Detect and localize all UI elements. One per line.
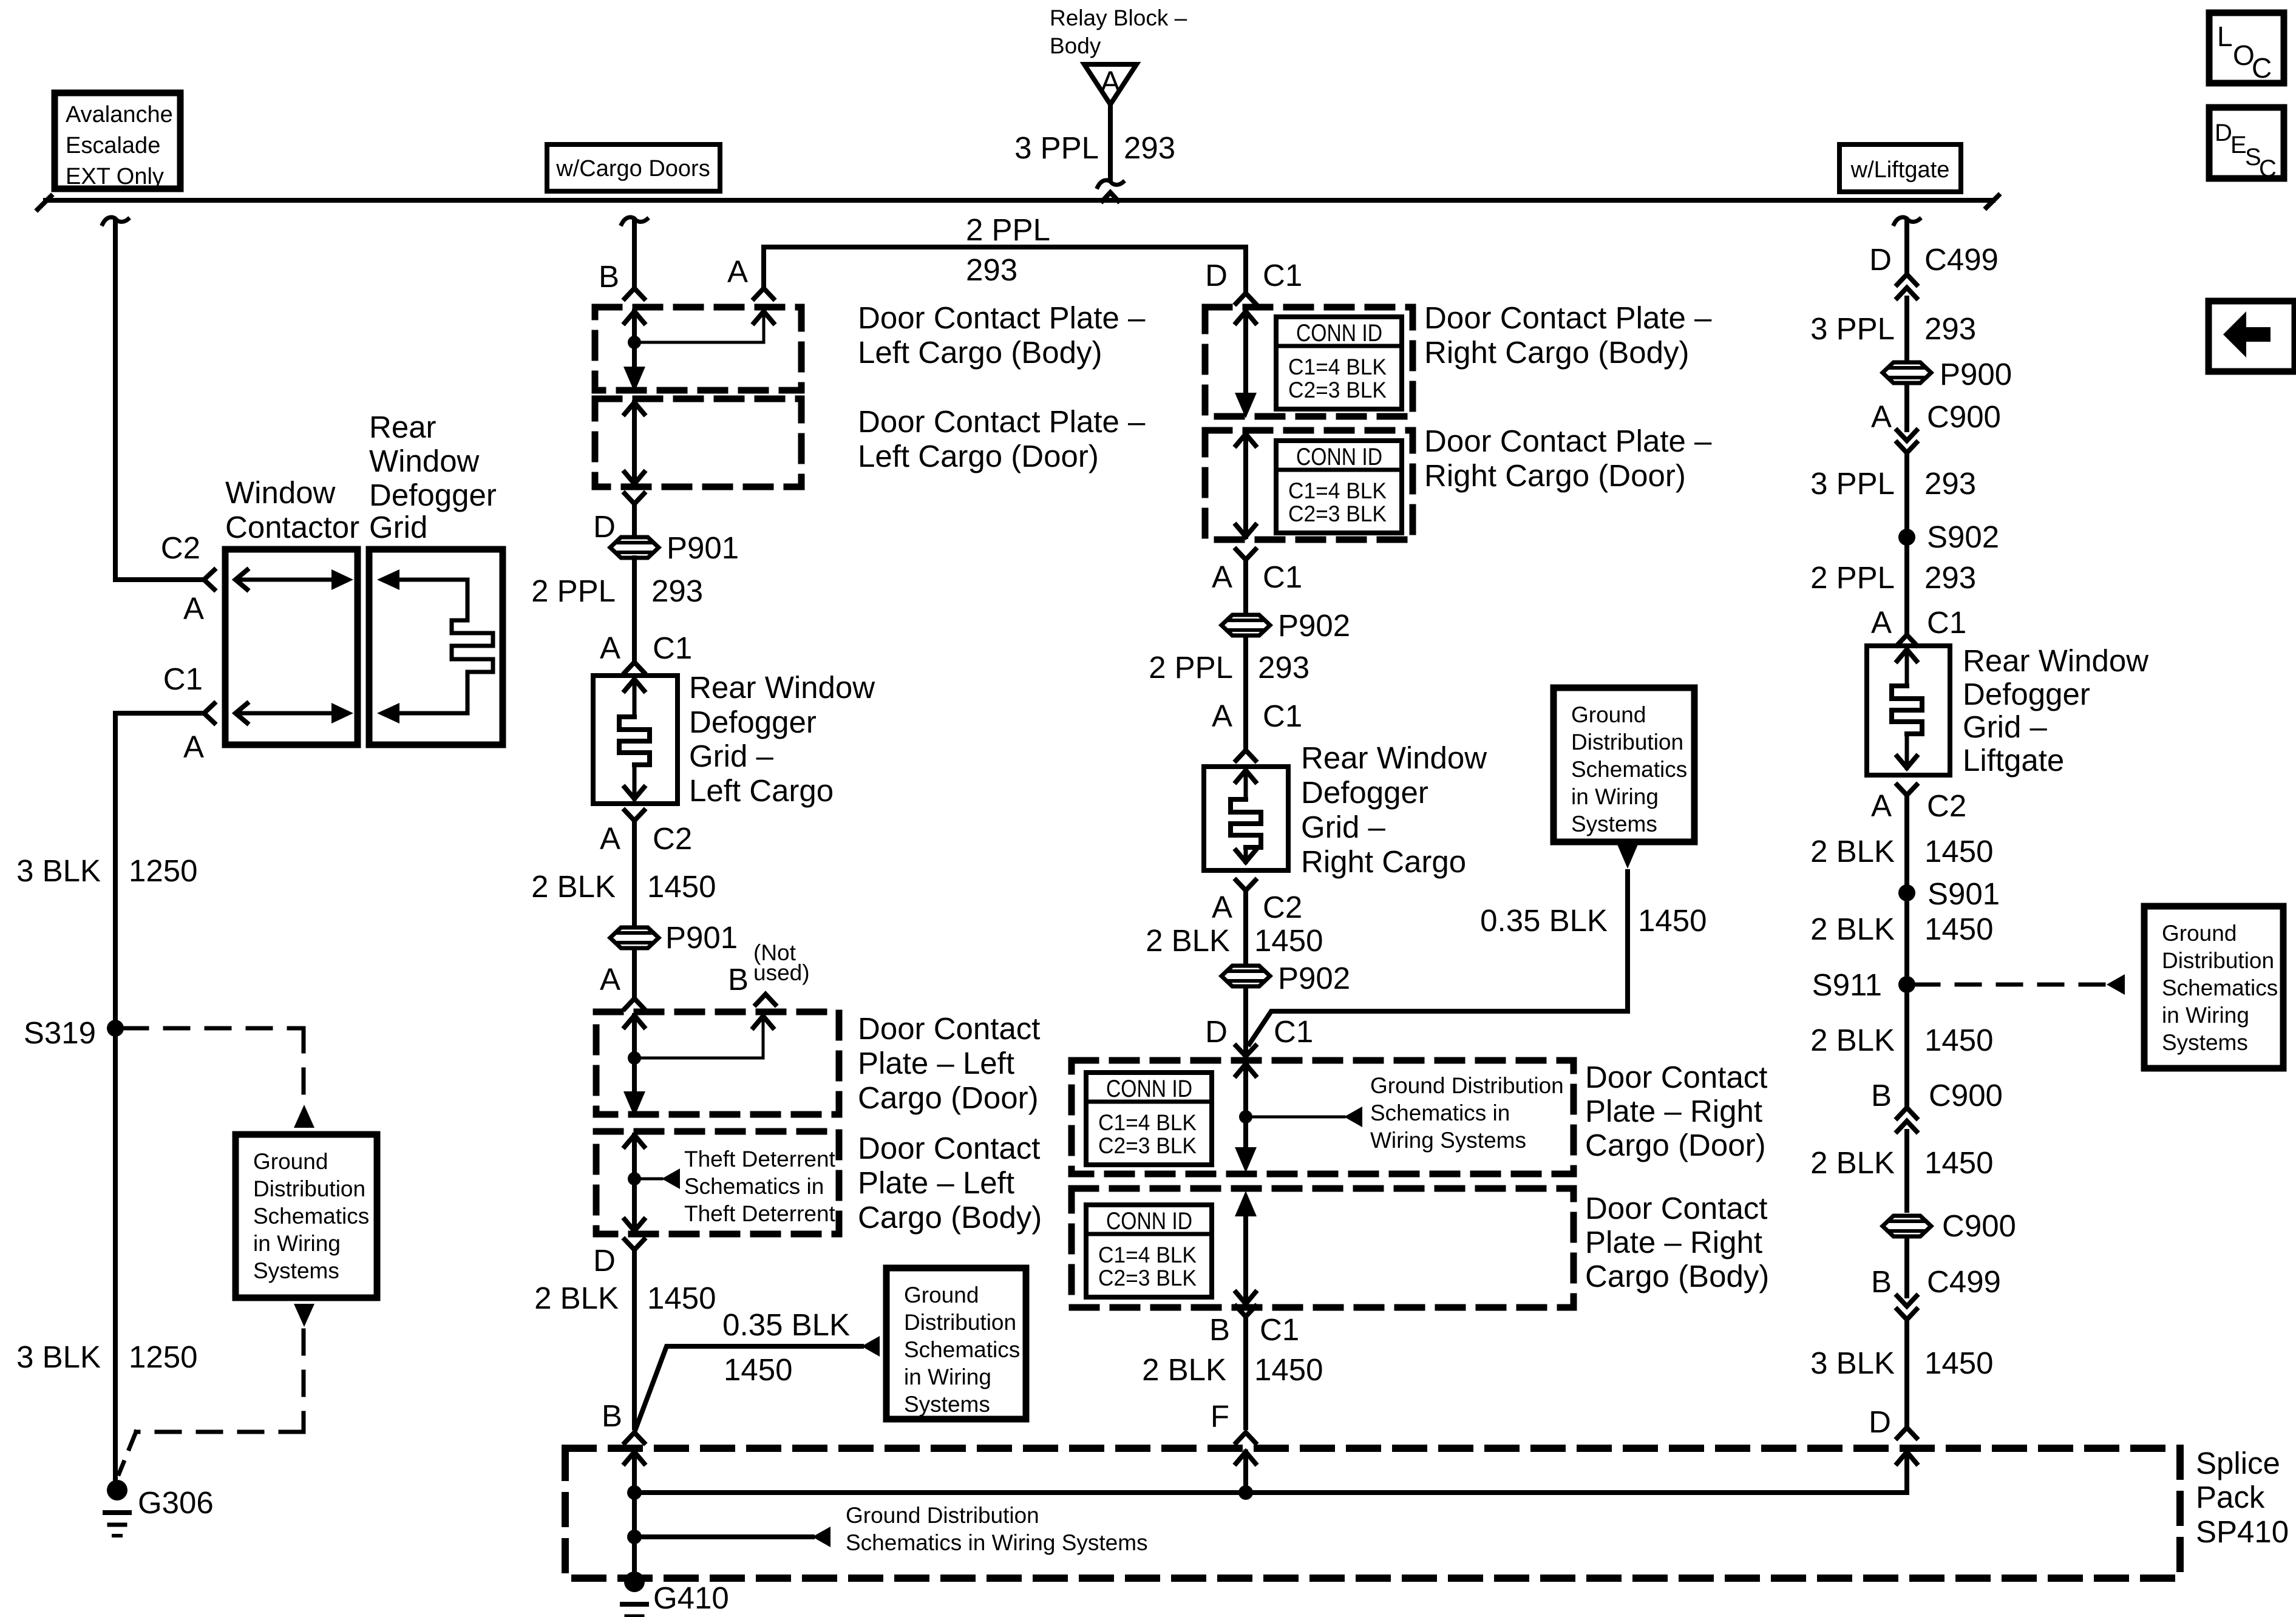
- svg-text:293: 293: [651, 574, 703, 608]
- label box w/Cargo Doors: [547, 144, 720, 191]
- svg-text:C1: C1: [1274, 1014, 1313, 1049]
- svg-text:G306: G306: [138, 1485, 214, 1520]
- svg-text:w/Cargo Doors: w/Cargo Doors: [555, 156, 710, 181]
- wire from pin D to P901: [632, 504, 637, 537]
- wire from defogger grid liftgate to S901: [1904, 795, 1909, 884]
- svg-text:D: D: [2215, 120, 2232, 146]
- wire from relay triangle to bus: [1108, 104, 1113, 180]
- svg-text:Avalanche: Avalanche: [66, 102, 173, 127]
- grid element inside defogger grid right cargo: [1236, 770, 1255, 782]
- svg-text:Defogger: Defogger: [689, 705, 817, 739]
- dashed reference wire from ground distribution box down to G306 wire: [294, 1304, 314, 1327]
- dashed box Door Contact Plate - Right Cargo (Body) (ground side): [1072, 1188, 1574, 1307]
- svg-text:Schematics: Schematics: [904, 1337, 1020, 1362]
- splice S911: [1898, 976, 1915, 993]
- svg-text:C2=3 BLK: C2=3 BLK: [1288, 378, 1387, 402]
- CONN ID table right cargo body plate (ground side): [1086, 1205, 1212, 1297]
- svg-text:C1: C1: [1260, 1312, 1299, 1347]
- svg-text:1450: 1450: [1254, 1352, 1323, 1387]
- svg-text:2 PPL: 2 PPL: [1810, 560, 1895, 595]
- svg-text:A: A: [1871, 788, 1892, 823]
- svg-text:in Wiring: in Wiring: [2162, 1003, 2249, 1028]
- wire from defogger grid left cargo to P901: [632, 821, 637, 926]
- pin B C499 double chevron: [1904, 1237, 1909, 1296]
- grid element inside Rear Window Defogger Grid: [377, 569, 399, 590]
- svg-text:D: D: [1205, 1014, 1228, 1049]
- svg-text:Theft Deterrent: Theft Deterrent: [684, 1147, 836, 1171]
- svg-text:A: A: [727, 254, 748, 289]
- svg-text:1450: 1450: [1924, 1023, 1993, 1057]
- main bus wire: [46, 198, 1993, 203]
- svg-text:0.35 BLK: 0.35 BLK: [722, 1307, 850, 1342]
- pin C1 connector chevron (Window Contactor): [204, 703, 214, 723]
- pass-through connector P900: [1883, 362, 1931, 383]
- svg-text:Defogger: Defogger: [369, 478, 497, 512]
- contact wire inside left cargo door plate (ground side): [625, 1015, 644, 1027]
- svg-text:Door Contact: Door Contact: [858, 1131, 1040, 1165]
- svg-text:Window: Window: [369, 444, 480, 478]
- off-page triangle A (Relay Block feed): [1084, 64, 1136, 104]
- wire from defogger grid right cargo to P902: [1243, 890, 1248, 965]
- svg-text:CONN ID: CONN ID: [1106, 1076, 1192, 1102]
- svg-text:3 PPL: 3 PPL: [1810, 466, 1895, 501]
- svg-text:B: B: [599, 259, 619, 294]
- svg-text:C2: C2: [161, 531, 200, 565]
- svg-text:A: A: [1871, 399, 1892, 434]
- svg-text:Ground: Ground: [1571, 702, 1646, 727]
- svg-text:Schematics in: Schematics in: [1370, 1100, 1510, 1125]
- svg-text:Cargo (Door): Cargo (Door): [1585, 1128, 1766, 1162]
- dashed reference wire from S911 to ground distribution box (right): [1915, 983, 2107, 987]
- svg-text:used): used): [753, 960, 810, 985]
- svg-text:C2: C2: [1263, 890, 1302, 924]
- pass-through connector P902 (return): [1221, 966, 1270, 986]
- svg-text:CONN ID: CONN ID: [1296, 444, 1382, 470]
- svg-text:Distribution: Distribution: [1571, 730, 1683, 754]
- svg-text:Schematics: Schematics: [1571, 757, 1687, 782]
- svg-text:Left Cargo (Body): Left Cargo (Body): [858, 335, 1102, 370]
- svg-text:3 BLK: 3 BLK: [16, 853, 101, 888]
- svg-text:3 BLK: 3 BLK: [16, 1340, 101, 1374]
- svg-text:P902: P902: [1278, 961, 1350, 995]
- svg-text:1250: 1250: [129, 1340, 197, 1374]
- svg-text:1450: 1450: [1924, 1145, 1993, 1180]
- legend box with left arrow (top right): [2209, 301, 2295, 371]
- svg-text:w/Liftgate: w/Liftgate: [1850, 157, 1950, 183]
- contact wire inside left cargo body plate: [625, 311, 644, 323]
- svg-text:A: A: [1212, 699, 1232, 733]
- dashed box Door Contact Plate - Left Cargo (Door): [595, 399, 801, 487]
- svg-text:Schematics: Schematics: [253, 1204, 369, 1229]
- grid element inside defogger grid liftgate: [1897, 649, 1917, 661]
- dashed box Splice Pack SP410: [565, 1448, 2180, 1578]
- svg-text:G410: G410: [653, 1581, 729, 1615]
- contact wire inside left cargo body plate (ground side): [625, 1135, 644, 1147]
- splice bus wire inside SP410 (B to D): [625, 1452, 644, 1463]
- svg-text:Distribution: Distribution: [2162, 948, 2274, 973]
- svg-text:Systems: Systems: [904, 1392, 990, 1417]
- svg-text:P900: P900: [1940, 357, 2012, 392]
- component Window Contactor: [225, 549, 358, 745]
- svg-text:Relay Block –: Relay Block –: [1050, 5, 1187, 30]
- svg-text:L: L: [2217, 21, 2233, 52]
- pass-through connector P901 (return): [610, 927, 659, 948]
- pass-through connector C900: [1883, 1216, 1931, 1236]
- svg-text:B: B: [1209, 1312, 1230, 1347]
- svg-text:Ground Distribution: Ground Distribution: [1370, 1073, 1564, 1098]
- svg-text:293: 293: [1924, 466, 1976, 501]
- svg-text:C2=3 BLK: C2=3 BLK: [1098, 1133, 1197, 1158]
- CONN ID table right cargo door plate: [1276, 441, 1402, 533]
- svg-text:A: A: [1212, 890, 1232, 924]
- svg-text:B: B: [728, 962, 749, 997]
- label box Ground Distribution Schematics in Wiring Systems (right): [2144, 906, 2283, 1068]
- label box w/Liftgate: [1839, 144, 1961, 192]
- wire to defogger grid left cargo: [632, 558, 637, 662]
- svg-text:S911: S911: [1812, 968, 1882, 1002]
- svg-text:Systems: Systems: [1571, 812, 1657, 836]
- svg-text:in Wiring: in Wiring: [904, 1364, 991, 1389]
- svg-text:Rear: Rear: [369, 410, 436, 444]
- dashed box Door Contact Plate - Left Cargo (Body): [595, 307, 801, 390]
- wire to defogger grid right cargo: [1243, 636, 1248, 750]
- CONN ID table right cargo door plate (ground side): [1086, 1073, 1212, 1165]
- CONN ID table right cargo body plate: [1276, 317, 1402, 409]
- svg-text:Pack: Pack: [2196, 1480, 2265, 1514]
- svg-text:1450: 1450: [1254, 923, 1323, 958]
- svg-text:Grid –: Grid –: [1301, 810, 1386, 844]
- svg-text:B: B: [1871, 1264, 1892, 1299]
- svg-text:293: 293: [1924, 560, 1976, 595]
- svg-text:EXT Only: EXT Only: [66, 164, 164, 189]
- pin B C1 chevron below right cargo body plate: [1236, 1306, 1255, 1317]
- svg-text:Left Cargo (Door): Left Cargo (Door): [858, 439, 1099, 473]
- svg-text:2 BLK: 2 BLK: [1810, 1145, 1895, 1180]
- wire from S911 to C900: [1904, 985, 1909, 1108]
- contact wire inside right cargo door plate (ground side): [1236, 1064, 1255, 1076]
- svg-text:D: D: [1205, 258, 1228, 293]
- svg-text:Plate – Left: Plate – Left: [858, 1046, 1014, 1080]
- svg-text:C1=4 BLK: C1=4 BLK: [1288, 354, 1387, 379]
- svg-text:Door Contact Plate –: Door Contact Plate –: [858, 300, 1146, 335]
- contact wire inside right cargo door plate: [1236, 434, 1255, 446]
- ground G410: [624, 1571, 645, 1592]
- svg-text:A: A: [183, 730, 204, 764]
- svg-text:Liftgate: Liftgate: [1963, 743, 2064, 778]
- svg-text:1450: 1450: [1924, 834, 1993, 869]
- svg-text:1450: 1450: [647, 869, 716, 904]
- svg-text:Rear Window: Rear Window: [1963, 643, 2148, 678]
- pin A C2 chevron below defogger grid right cargo: [1236, 880, 1255, 890]
- svg-text:F: F: [1211, 1399, 1229, 1434]
- svg-text:Right Cargo (Body): Right Cargo (Body): [1424, 335, 1690, 370]
- component Rear Window Defogger Grid - Liftgate: [1867, 646, 1950, 775]
- svg-text:Cargo (Door): Cargo (Door): [858, 1080, 1039, 1115]
- svg-text:A: A: [1100, 65, 1121, 99]
- reference stub wire inside SP410: [627, 1530, 642, 1544]
- pin A C1 chevron at defogger grid right cargo: [1236, 750, 1255, 761]
- svg-text:1250: 1250: [129, 853, 197, 888]
- wire 2 PPL 293 from pin A left cargo body to right cargo plate: [754, 288, 773, 299]
- svg-text:Ground: Ground: [904, 1283, 979, 1307]
- svg-text:C900: C900: [1929, 1078, 2003, 1113]
- pin D C1 chevron at Door Contact Plate - Right Cargo (Body): [1236, 293, 1255, 303]
- svg-text:Wiring Systems: Wiring Systems: [1370, 1128, 1526, 1153]
- svg-text:Schematics in: Schematics in: [684, 1174, 824, 1199]
- wire from right cargo door plate to P902: [1243, 560, 1248, 614]
- svg-text:Plate – Right: Plate – Right: [1585, 1094, 1762, 1128]
- svg-text:A: A: [600, 821, 620, 856]
- label box Ground Distribution Schematics in Wiring Systems (left): [236, 1134, 377, 1298]
- label box Avalanche Escalade EXT Only: [55, 93, 180, 189]
- svg-text:A: A: [183, 591, 204, 626]
- svg-text:C2=3 BLK: C2=3 BLK: [1098, 1266, 1197, 1290]
- svg-text:Theft Deterrent: Theft Deterrent: [684, 1201, 836, 1226]
- svg-text:Systems: Systems: [2162, 1030, 2248, 1055]
- svg-text:Ground Distribution: Ground Distribution: [846, 1503, 1039, 1528]
- svg-text:A: A: [1871, 605, 1892, 640]
- svg-text:3 PPL: 3 PPL: [1810, 311, 1895, 346]
- branch wire 0.35 BLK 1450 from ground distribution box to right cargo wire: [1617, 843, 1639, 869]
- svg-text:3 BLK: 3 BLK: [1810, 1346, 1895, 1380]
- wire from bus down-left (Avalanche branch): [103, 217, 128, 224]
- svg-text:Defogger: Defogger: [1963, 677, 2090, 711]
- svg-text:C499: C499: [1927, 1264, 2001, 1299]
- wire from pin D to splice pack: [632, 1250, 637, 1428]
- svg-text:Rear Window: Rear Window: [689, 670, 875, 705]
- svg-text:A: A: [600, 631, 620, 665]
- svg-text:Door Contact Plate –: Door Contact Plate –: [1424, 424, 1712, 458]
- svg-text:C: C: [2252, 52, 2272, 84]
- svg-text:Schematics: Schematics: [2162, 975, 2278, 1000]
- svg-text:0.35 BLK: 0.35 BLK: [1480, 903, 1608, 938]
- svg-text:C2=3 BLK: C2=3 BLK: [1288, 501, 1387, 526]
- svg-text:in Wiring: in Wiring: [253, 1231, 341, 1256]
- svg-text:CONN ID: CONN ID: [1106, 1208, 1192, 1235]
- branch wire 0.35 BLK 1450 to ground distribution box (center): [635, 1346, 861, 1431]
- dashed box Door Contact Plate - Right Cargo (Body): [1205, 307, 1413, 416]
- svg-text:S319: S319: [24, 1015, 96, 1050]
- svg-text:293: 293: [1124, 131, 1175, 165]
- svg-text:2 PPL: 2 PPL: [531, 574, 616, 608]
- contact arrow row C1 inside Window Contactor: [238, 711, 333, 716]
- svg-text:C1: C1: [1263, 258, 1302, 293]
- pin D chevron below left cargo body plate: [625, 1239, 644, 1250]
- svg-text:Plate – Left: Plate – Left: [858, 1165, 1014, 1200]
- svg-text:Grid –: Grid –: [1963, 710, 2048, 744]
- svg-text:2 BLK: 2 BLK: [1810, 1023, 1895, 1057]
- svg-text:B: B: [1871, 1078, 1892, 1113]
- svg-text:Rear Window: Rear Window: [1301, 741, 1487, 775]
- splice S901: [1898, 884, 1915, 901]
- svg-text:C1=4 BLK: C1=4 BLK: [1288, 478, 1387, 503]
- svg-text:C2: C2: [1927, 788, 1966, 823]
- svg-text:Window: Window: [225, 475, 336, 510]
- svg-text:Cargo (Body): Cargo (Body): [1585, 1259, 1769, 1293]
- svg-text:2 BLK: 2 BLK: [1146, 923, 1230, 958]
- pin A C1 chevron below right cargo door plate: [1236, 549, 1255, 560]
- svg-text:C1: C1: [1263, 560, 1302, 594]
- svg-text:A: A: [600, 962, 620, 997]
- svg-text:C1=4 BLK: C1=4 BLK: [1098, 1242, 1197, 1267]
- svg-text:2 BLK: 2 BLK: [1142, 1352, 1226, 1387]
- svg-text:Door Contact: Door Contact: [858, 1011, 1040, 1046]
- dashed box Door Contact Plate - Right Cargo (Door): [1205, 430, 1413, 540]
- pin A C2 chevron below defogger grid left cargo: [625, 810, 644, 821]
- svg-text:1450: 1450: [1924, 912, 1993, 946]
- wire from P901 to left cargo door plate: [632, 949, 637, 998]
- pin B chevron at Door Contact Plate - Left Cargo (Body): [625, 288, 644, 299]
- svg-text:2 BLK: 2 BLK: [534, 1281, 619, 1315]
- svg-text:C1: C1: [653, 631, 692, 665]
- svg-text:Plate – Right: Plate – Right: [1585, 1225, 1762, 1259]
- svg-text:D: D: [593, 509, 616, 544]
- pin A chevron at left cargo door plate (ground side): [625, 998, 644, 1009]
- wire B from bus (w/Cargo Doors): [622, 217, 647, 224]
- label box Ground Distribution Schematics in Wiring Systems (right of center): [1554, 688, 1694, 842]
- svg-text:Right Cargo (Door): Right Cargo (Door): [1424, 458, 1686, 493]
- dashed box Door Contact Plate - Right Cargo (Door) (ground side): [1072, 1060, 1574, 1174]
- svg-text:2 PPL: 2 PPL: [966, 212, 1050, 247]
- svg-text:1450: 1450: [1924, 1346, 1993, 1380]
- component Rear Window Defogger Grid - Left Cargo: [593, 676, 678, 804]
- wire from pin C1 down to G306: [115, 711, 204, 716]
- pin C2 connector chevron (Window Contactor): [204, 570, 214, 589]
- svg-text:C: C: [2259, 155, 2277, 182]
- svg-text:CONN ID: CONN ID: [1296, 320, 1382, 347]
- splice S319: [107, 1020, 124, 1037]
- svg-text:Systems: Systems: [253, 1258, 339, 1283]
- svg-text:S902: S902: [1927, 520, 1999, 554]
- splice S902: [1898, 529, 1915, 546]
- wire from S901 to S911: [1904, 893, 1909, 985]
- svg-text:C499: C499: [1924, 242, 1999, 277]
- component Rear Window Defogger Grid - Right Cargo: [1204, 767, 1288, 870]
- pin B chevron (not used): [756, 994, 775, 1005]
- wire from pin B to splice pack (F): [1243, 1317, 1248, 1428]
- svg-text:Cargo (Body): Cargo (Body): [858, 1200, 1042, 1235]
- svg-text:1450: 1450: [647, 1281, 716, 1315]
- svg-text:D: D: [1869, 242, 1892, 277]
- svg-text:D: D: [1869, 1405, 1891, 1439]
- svg-text:P901: P901: [665, 920, 738, 955]
- svg-text:293: 293: [1924, 311, 1976, 346]
- wire from S902 to defogger grid liftgate: [1904, 537, 1909, 635]
- pass-through connector P901: [610, 537, 659, 558]
- svg-text:2 BLK: 2 BLK: [1810, 834, 1895, 869]
- svg-text:Right Cargo: Right Cargo: [1301, 844, 1466, 879]
- svg-text:C1=4 BLK: C1=4 BLK: [1098, 1110, 1197, 1135]
- svg-text:293: 293: [966, 253, 1017, 287]
- svg-text:Door Contact Plate –: Door Contact Plate –: [858, 404, 1146, 439]
- wire from P902 to right cargo door plate (ground side): [1243, 987, 1248, 1056]
- pass-through connector P902: [1221, 615, 1270, 636]
- svg-text:Distribution: Distribution: [253, 1176, 365, 1201]
- svg-text:Grid: Grid: [369, 510, 427, 544]
- svg-text:Ground: Ground: [253, 1149, 328, 1174]
- svg-text:Distribution: Distribution: [904, 1310, 1016, 1335]
- contact wire inside right cargo body plate (ground side): [1235, 1191, 1257, 1216]
- svg-text:Contactor: Contactor: [225, 510, 359, 544]
- pin A C2 chevron below defogger grid liftgate: [1897, 785, 1917, 795]
- svg-text:293: 293: [1258, 650, 1309, 685]
- contact arrow row C2 inside Window Contactor: [238, 578, 333, 582]
- svg-text:2 PPL: 2 PPL: [1149, 650, 1233, 685]
- dashed reference wire from S319 to ground distribution box: [124, 1026, 304, 1031]
- grid element inside defogger grid left cargo: [625, 679, 644, 691]
- legend box DESC (top right): [2209, 107, 2284, 178]
- svg-text:1450: 1450: [1638, 903, 1707, 938]
- contact wire inside right cargo body plate: [1236, 311, 1255, 323]
- svg-text:C2: C2: [653, 821, 692, 856]
- label box Ground Distribution Schematics in Wiring Systems (center): [886, 1268, 1026, 1419]
- svg-text:C1: C1: [163, 662, 203, 696]
- component Rear Window Defogger Grid (rear glass): [369, 549, 503, 745]
- svg-text:C900: C900: [1942, 1209, 2016, 1243]
- wire D from bus (w/Liftgate): [1894, 217, 1920, 224]
- svg-text:Splice: Splice: [2196, 1446, 2280, 1480]
- svg-text:Grid –: Grid –: [689, 739, 774, 773]
- svg-text:3 PPL: 3 PPL: [1014, 131, 1099, 165]
- svg-text:E: E: [2230, 132, 2247, 158]
- svg-text:2 BLK: 2 BLK: [1810, 912, 1895, 946]
- svg-text:S901: S901: [1927, 876, 2000, 911]
- svg-text:C1: C1: [1263, 699, 1302, 733]
- pin D chevron below left cargo door plate: [625, 493, 644, 504]
- svg-text:Ground: Ground: [2162, 921, 2237, 946]
- svg-text:C900: C900: [1927, 399, 2001, 434]
- svg-text:Door Contact Plate –: Door Contact Plate –: [1424, 300, 1712, 335]
- pin D C1 chevron at right cargo door plate (ground side): [1236, 1046, 1255, 1056]
- svg-text:D: D: [593, 1243, 616, 1278]
- svg-text:Door Contact: Door Contact: [1585, 1191, 1767, 1225]
- svg-text:Schematics in Wiring Systems: Schematics in Wiring Systems: [846, 1530, 1148, 1555]
- svg-text:Left Cargo: Left Cargo: [689, 773, 834, 808]
- dashed box Door Contact Plate - Left Cargo (Body) (ground side): [596, 1131, 839, 1234]
- svg-text:2 BLK: 2 BLK: [531, 869, 616, 904]
- svg-text:Door Contact: Door Contact: [1585, 1060, 1767, 1094]
- svg-text:Body: Body: [1050, 33, 1101, 58]
- svg-text:C1: C1: [1927, 605, 1966, 640]
- svg-text:1450: 1450: [724, 1352, 792, 1387]
- dashed box Door Contact Plate - Left Cargo (Door) (ground side): [596, 1012, 839, 1114]
- svg-text:P902: P902: [1278, 608, 1350, 643]
- svg-text:B: B: [602, 1398, 622, 1433]
- svg-text:Escalade: Escalade: [66, 133, 160, 158]
- svg-text:Defogger: Defogger: [1301, 775, 1428, 810]
- svg-text:A: A: [1212, 560, 1232, 594]
- ground G306: [107, 1480, 127, 1500]
- pin A C1 chevron at defogger grid liftgate: [1897, 635, 1917, 645]
- svg-text:in Wiring: in Wiring: [1571, 784, 1659, 809]
- svg-text:P901: P901: [667, 531, 739, 565]
- pin A C1 chevron at defogger grid left cargo: [625, 662, 644, 673]
- legend box LOC (top right): [2209, 13, 2284, 83]
- contact wire inside left cargo door plate: [625, 402, 644, 414]
- svg-text:SP410: SP410: [2196, 1514, 2289, 1549]
